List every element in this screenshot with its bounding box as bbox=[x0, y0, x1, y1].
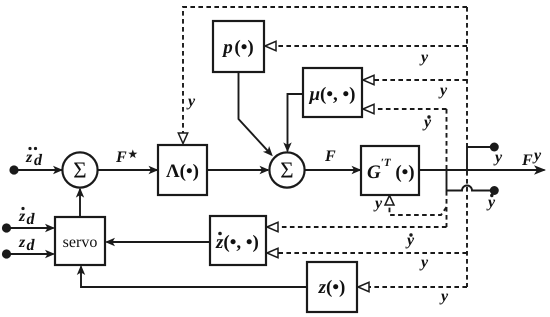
star superscript bbox=[128, 149, 137, 158]
svg-text:d: d bbox=[27, 211, 36, 228]
open arrowhead into mu upper right bbox=[363, 75, 374, 84]
node zdot_d input terminal bbox=[2, 223, 11, 232]
svg-text:d: d bbox=[27, 237, 36, 254]
svg-text:Σ: Σ bbox=[73, 158, 86, 183]
open arrowhead into zdot lower right bbox=[267, 248, 278, 257]
node zdd_d input terminal bbox=[9, 165, 18, 174]
svg-text:F: F bbox=[115, 149, 127, 166]
node z_d input terminal bbox=[2, 249, 11, 258]
wire sum2 to G bbox=[305, 169, 360, 171]
svg-text:F: F bbox=[521, 152, 533, 169]
wire z_d to servo bbox=[7, 253, 54, 255]
wire dashed branch ydot to zdot upper bbox=[278, 226, 447, 228]
wire inner ydot rail vertical bbox=[446, 109, 448, 169]
svg-text:z: z bbox=[18, 208, 26, 225]
summing junction sum2 bbox=[269, 152, 304, 187]
wire zdot_d to servo bbox=[7, 227, 54, 229]
svg-text:z: z bbox=[25, 149, 33, 166]
wire dashed branch y to z block bbox=[369, 286, 467, 288]
wire Lambda to sum2 bbox=[207, 169, 268, 171]
svg-text:y: y bbox=[373, 195, 383, 212]
wire dashed branch y to G bottom bbox=[390, 205, 447, 215]
svg-text:p (•): p (•) bbox=[221, 37, 253, 58]
wire z to servo bottom bbox=[81, 267, 307, 288]
svg-text:Σ: Σ bbox=[280, 158, 293, 183]
node ydot output terminal bbox=[490, 186, 499, 195]
wire outer y rail vertical (right) bbox=[466, 7, 468, 146]
open arrowhead into Lambda top bbox=[178, 133, 187, 144]
wire dashed branch y to p block bbox=[276, 45, 467, 47]
svg-text:z: z bbox=[18, 234, 26, 251]
svg-text:y: y bbox=[439, 288, 449, 305]
svg-text:d: d bbox=[34, 152, 43, 169]
wire zdd_d to sum1 bbox=[14, 169, 62, 171]
svg-text:y: y bbox=[532, 147, 542, 164]
block mu bbox=[303, 68, 362, 117]
wire dashed branch ydot to mu lower bbox=[374, 108, 447, 110]
open arrowhead into p right bbox=[265, 41, 276, 50]
wire top dashed feedback y to Lambda bbox=[183, 7, 467, 133]
open arrowhead into z right bbox=[358, 282, 369, 291]
svg-text:F: F bbox=[324, 148, 336, 165]
svg-text:y: y bbox=[419, 254, 429, 271]
wire zdot to servo bbox=[107, 241, 211, 243]
wire mu output to sum2 bbox=[288, 94, 304, 151]
wire sum1 to Lambda bbox=[98, 169, 157, 171]
wire y tap up from output line bbox=[467, 147, 492, 170]
block z bbox=[307, 262, 357, 312]
svg-text:z(•): z(•) bbox=[318, 277, 346, 298]
svg-text:y: y bbox=[186, 93, 196, 110]
block p bbox=[213, 21, 264, 72]
svg-text:servo: servo bbox=[63, 234, 98, 251]
svg-text:Λ(•): Λ(•) bbox=[166, 161, 199, 182]
block Lambda bbox=[158, 145, 207, 195]
open arrowhead into mu lower right bbox=[363, 104, 374, 113]
svg-text:y: y bbox=[419, 49, 429, 66]
wire servo to sum1 bbox=[79, 189, 81, 217]
wire G to output Fy bbox=[419, 169, 545, 171]
svg-text:z(•, •): z(•, •) bbox=[215, 232, 259, 253]
svg-text:μ(•, •): μ(•, •) bbox=[308, 84, 355, 105]
summing junction sum1 bbox=[62, 152, 97, 187]
open arrowhead into zdot upper right bbox=[267, 222, 278, 231]
block G bbox=[361, 146, 419, 195]
block zdot bbox=[210, 216, 266, 265]
node y output terminal bbox=[490, 143, 499, 152]
wire dashed branch y to mu upper bbox=[374, 79, 467, 81]
svg-text:y: y bbox=[493, 149, 503, 166]
wire dashed branch y to zdot lower bbox=[278, 252, 467, 254]
open arrowhead into G bottom bbox=[385, 196, 394, 206]
wire ydot tap down from output line with hop bbox=[447, 170, 493, 191]
block servo bbox=[55, 217, 105, 265]
svg-text:y: y bbox=[438, 82, 448, 99]
wire p output to sum2 bbox=[239, 72, 272, 155]
